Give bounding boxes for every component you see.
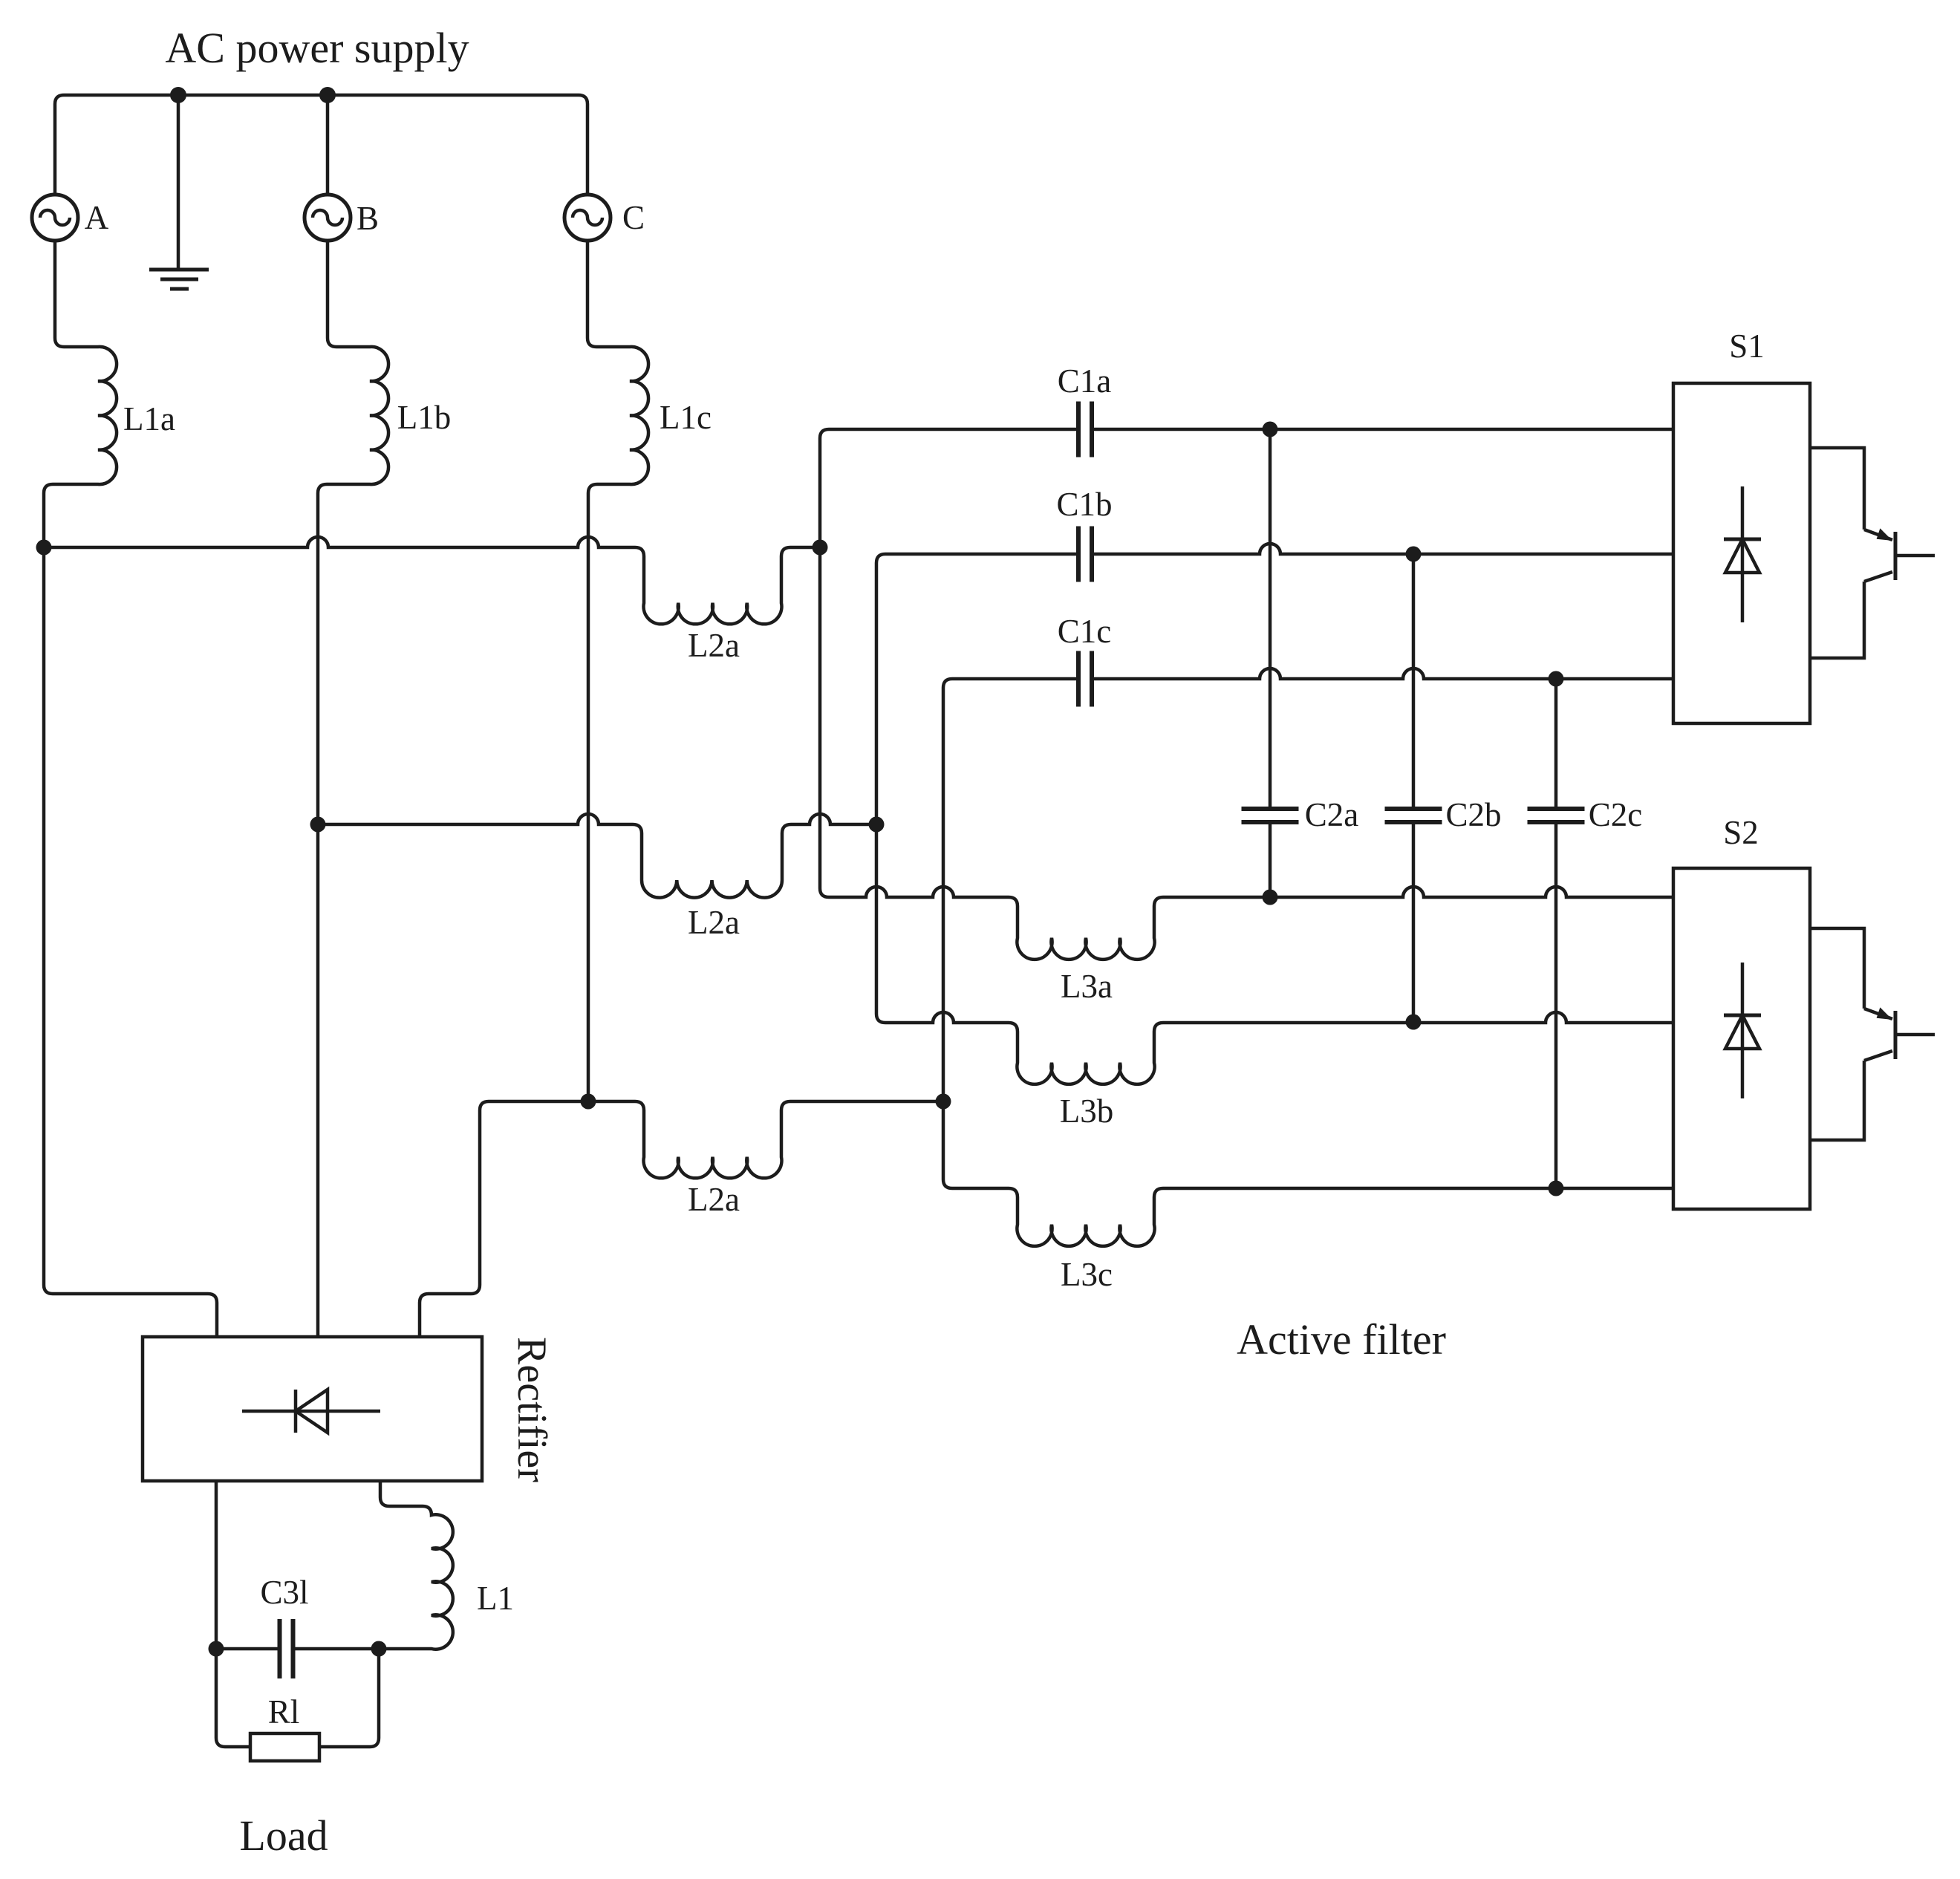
svg-text:C1a: C1a [1058,362,1112,400]
svg-text:B: B [356,200,379,237]
svg-text:Active filter: Active filter [1237,1315,1446,1364]
svg-text:L3c: L3c [1061,1256,1113,1293]
svg-text:L1b: L1b [397,399,452,436]
svg-text:Rectifier: Rectifier [509,1337,555,1482]
svg-text:Rl: Rl [268,1693,300,1730]
svg-text:C: C [622,199,645,236]
svg-text:A: A [85,199,109,236]
svg-text:S2: S2 [1723,814,1759,851]
svg-text:C3l: C3l [260,1574,308,1611]
svg-text:L2a: L2a [688,627,740,664]
svg-text:L1c: L1c [660,399,712,436]
svg-text:L2a: L2a [688,1181,740,1218]
svg-text:C2c: C2c [1589,796,1643,833]
svg-text:C2a: C2a [1305,796,1359,833]
svg-text:L3b: L3b [1060,1092,1114,1130]
svg-text:L1a: L1a [123,400,175,437]
svg-text:L1: L1 [477,1580,514,1617]
svg-text:C2b: C2b [1445,796,1501,833]
svg-text:L2a: L2a [688,904,740,941]
svg-text:C1b: C1b [1056,486,1112,523]
svg-text:L3a: L3a [1061,968,1113,1005]
svg-text:C1c: C1c [1058,613,1112,650]
svg-text:S1: S1 [1729,328,1765,365]
svg-text:AC power supply: AC power supply [165,24,469,72]
svg-text:Load: Load [239,1811,328,1860]
